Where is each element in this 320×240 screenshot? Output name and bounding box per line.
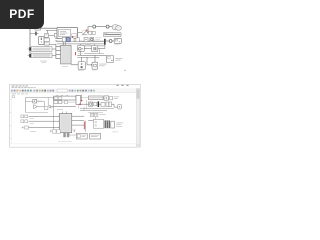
left row3 block (25, 126, 29, 129)
scope block right (118, 105, 122, 109)
red marker (72, 36, 73, 37)
block dot (92, 114, 93, 115)
status strip (10, 143, 136, 145)
wire into S1 top (80, 44, 82, 45)
row A block 2 (54, 33, 58, 37)
info block (90, 133, 101, 139)
red probe 2 (83, 122, 85, 130)
canvas net vlines (44, 98, 48, 107)
faint label right (112, 131, 118, 134)
wire (26, 101, 33, 103)
wire row3 (29, 126, 59, 128)
dark connector bar (35, 32, 36, 36)
row B wire (49, 44, 56, 46)
controller output wires (72, 116, 85, 125)
row B block (45, 41, 50, 45)
address text row (12, 93, 28, 96)
plus mark (22, 127, 24, 129)
wires F blocks to bus (28, 49, 56, 56)
transport delay block (104, 33, 121, 37)
junction circle (109, 40, 112, 43)
left ruler (10, 94, 12, 144)
machine label (62, 65, 68, 68)
wire drop (98, 49, 100, 54)
wire (81, 103, 89, 105)
small block row under top wire (89, 31, 92, 34)
subsystem container U1 (57, 27, 78, 38)
wires up from controller (63, 112, 67, 114)
wire (102, 97, 105, 99)
row A block 1 (45, 34, 49, 38)
wire from container (78, 32, 83, 34)
top-right flat block (89, 96, 103, 100)
wire into S2 top (94, 44, 96, 46)
bridge bars (104, 120, 110, 128)
wire battery to junction (44, 38, 49, 41)
wire into bridge box (95, 117, 97, 120)
app window frame (10, 84, 141, 147)
mux nub F2 (29, 54, 31, 57)
canvas corner mark (12, 96, 14, 98)
wire (99, 103, 101, 105)
wire (37, 101, 45, 106)
left row1 blocks (21, 115, 24, 118)
wire into block top (62, 42, 64, 46)
wire into B top (94, 55, 96, 62)
inner small block (72, 34, 77, 37)
aux block (44, 107, 48, 110)
source block (33, 99, 37, 103)
wire elbow into B (87, 57, 91, 65)
stub wire 3 (56, 54, 60, 56)
label (57, 108, 63, 111)
third small block (64, 101, 67, 104)
vertical block (76, 96, 81, 105)
bottom row small rects (53, 130, 56, 134)
wire (71, 64, 78, 66)
small blocks under flat (54, 101, 58, 104)
left feedback bus (29, 28, 31, 58)
display block B (92, 62, 98, 69)
sum junction 1 (93, 25, 96, 28)
stub wire 2 (56, 50, 60, 52)
toolbar icons (11, 90, 54, 92)
red marker bottom (74, 130, 75, 131)
stub wire 4 (56, 58, 60, 60)
wire (62, 101, 76, 103)
wire net with red dot (81, 95, 83, 101)
label (99, 113, 105, 116)
extra net hline (88, 111, 103, 113)
long wires (80, 108, 114, 110)
mux M1 (104, 39, 106, 45)
labels (116, 123, 123, 127)
battery block A (78, 62, 85, 70)
wire row lower (77, 54, 106, 56)
label (99, 64, 107, 66)
sum block (90, 38, 94, 42)
left row2 blocks (21, 120, 24, 123)
label (85, 43, 91, 46)
label (38, 100, 43, 103)
three-phase box (93, 119, 103, 128)
sink block (104, 96, 109, 100)
demux label (115, 44, 120, 47)
flat machine block F1 (31, 47, 52, 52)
scope pair dark (63, 133, 66, 137)
row A wire (49, 34, 55, 36)
block (101, 102, 105, 106)
ramp source icon (83, 31, 87, 35)
right cluster small blocks (90, 113, 93, 116)
port labels (55, 38, 57, 41)
wire to sum 1 (87, 27, 92, 33)
display block C (107, 55, 114, 62)
rate block (blue) (66, 37, 70, 42)
gain block G2 (84, 38, 88, 42)
block pair (106, 102, 109, 107)
faint labels (62, 43, 97, 71)
mux nub F1 (29, 47, 31, 50)
gain triangle (34, 105, 38, 109)
menu text row2 (12, 86, 36, 89)
stray dot (124, 70, 125, 71)
row1 label (30, 117, 35, 120)
inner model block (59, 29, 71, 36)
wire row (50, 106, 75, 108)
red breakpoint dot (86, 30, 88, 32)
wire (98, 48, 105, 50)
long feedback wire (57, 43, 104, 45)
label (115, 58, 122, 60)
title menu text (12, 85, 28, 88)
toolbar strip (10, 88, 136, 93)
faint wire (58, 140, 72, 142)
wire elbow (112, 104, 118, 107)
boundary bottom (26, 111, 49, 113)
bracket block (111, 121, 115, 128)
subsystem boundary (26, 98, 54, 113)
powergui block (76, 133, 87, 139)
bus wire (56, 40, 104, 42)
row2 label (30, 122, 35, 125)
window buttons (117, 85, 129, 86)
PDF badge (0, 0, 44, 29)
quantizer block (71, 38, 74, 42)
wire row1 (29, 115, 59, 117)
gain block G1 (62, 37, 66, 41)
bus line (84, 53, 104, 55)
saturation block (76, 38, 80, 42)
wire down (84, 121, 86, 132)
label under rows (30, 130, 36, 133)
battery block S2 (92, 46, 98, 52)
wire (112, 40, 114, 42)
inner label lines (60, 31, 67, 35)
wire through connector (30, 32, 39, 34)
wire (84, 48, 91, 50)
port marks (50, 130, 52, 132)
wire 2 (84, 44, 105, 49)
second top wire (46, 30, 57, 33)
block dot (96, 114, 97, 115)
toolbar separator (10, 92, 136, 94)
red probe line (75, 52, 77, 55)
wire (88, 120, 93, 122)
wire (109, 26, 112, 28)
flat machine block F2 (31, 53, 52, 58)
wire row2 (29, 120, 59, 122)
scrollbar (136, 88, 140, 147)
sum junction 2 (106, 25, 109, 28)
label under F2 (40, 61, 47, 63)
combo box (57, 89, 67, 92)
bus line vertical (53, 98, 55, 131)
label (110, 96, 113, 100)
meter block (89, 102, 93, 106)
battery tall block (39, 36, 44, 44)
stub wire 1 (56, 46, 60, 48)
wire (106, 40, 109, 42)
demux block (114, 38, 121, 43)
extra net vlines (79, 98, 89, 111)
input bus vertical (55, 44, 57, 59)
red marker (79, 104, 80, 105)
mux M2 (98, 101, 100, 107)
flat bus block (54, 96, 76, 100)
wire into block top 2 (65, 42, 67, 46)
small block (94, 102, 97, 105)
scope block S1 (78, 45, 85, 51)
wire (96, 38, 102, 40)
wire vert into A (80, 57, 82, 61)
scope cloud (112, 25, 119, 30)
controller block (tall gray) (60, 113, 72, 132)
wire (96, 26, 106, 28)
top bus wire (30, 27, 57, 29)
sensor block on top wire (35, 27, 41, 30)
machine block (big gray) (61, 45, 72, 64)
